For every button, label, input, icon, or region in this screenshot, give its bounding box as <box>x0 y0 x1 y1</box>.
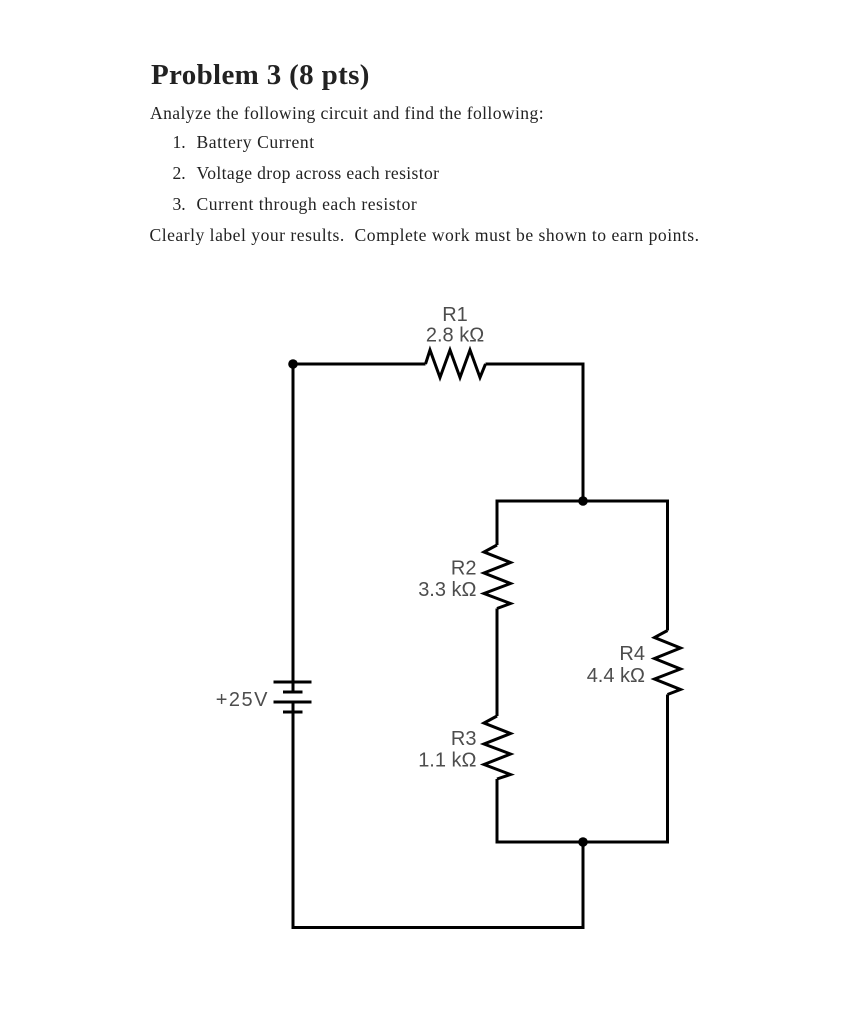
svg-text:R4: R4 <box>619 643 645 665</box>
node B junction dot <box>578 496 588 506</box>
node C junction dot <box>578 837 588 847</box>
wire: R4 bottom to bottom-right corner to node C <box>583 695 668 843</box>
wire: node B left to inner top-left corner down to R2 top <box>497 501 583 545</box>
list item 3 number <box>173 194 186 215</box>
intro line <box>150 103 544 124</box>
resistor R4 <box>655 631 681 695</box>
svg-text:R1: R1 <box>442 304 468 326</box>
svg-text:4.4 kΩ: 4.4 kΩ <box>587 665 645 687</box>
resistor R2 <box>484 545 511 609</box>
node A junction dot <box>288 359 298 369</box>
heading <box>151 59 370 92</box>
svg-text:1.1 kΩ: 1.1 kΩ <box>418 750 476 772</box>
svg-text:3.3 kΩ: 3.3 kΩ <box>418 579 476 601</box>
resistor R3 <box>484 716 511 779</box>
list item 1 number <box>173 132 186 153</box>
wire: R1 right lead to node B (top-right corner) <box>486 364 584 501</box>
wire: R2 bottom to R3 top <box>496 609 499 717</box>
wire: R3 bottom to inner bottom-left corner to node C <box>497 779 583 842</box>
list item 2 text <box>197 163 440 184</box>
battery V1 plates <box>274 682 312 712</box>
list item 1 text <box>197 132 315 153</box>
list item 3 text <box>197 194 418 215</box>
wire: node A down to battery positive <box>292 364 295 692</box>
svg-text:R3: R3 <box>451 728 477 750</box>
svg-text:2.8 kΩ: 2.8 kΩ <box>426 325 484 347</box>
wire: node C down to bottom rail, left, and up to battery negative <box>293 702 583 928</box>
resistor R1 <box>426 350 486 378</box>
wire: node B right to inner top-right corner down to R4 top <box>583 501 668 631</box>
svg-text:R2: R2 <box>451 558 477 580</box>
svg-text:+25V: +25V <box>216 689 269 711</box>
closing line <box>150 225 700 246</box>
list item 2 number <box>173 163 186 184</box>
wire: node A right to R1 left lead <box>293 363 426 366</box>
